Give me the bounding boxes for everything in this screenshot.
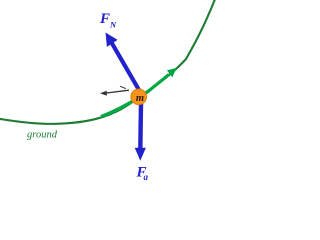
- svg-text:FN: FN: [99, 11, 117, 30]
- svg-text:g: g: [143, 172, 149, 180]
- svg-text:ground: ground: [27, 130, 58, 141]
- svg-text:m: m: [136, 93, 144, 104]
